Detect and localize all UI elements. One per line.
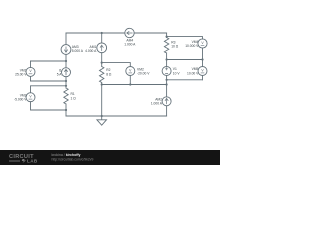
labels [14, 38, 199, 105]
voltmeter VM2 (center) [126, 67, 135, 76]
voltmeter VM5 [198, 67, 207, 76]
wire VM5 bottom L [167, 76, 203, 80]
svg-text:10 Ω: 10 Ω [171, 45, 179, 49]
svg-text:5 A: 5 A [57, 73, 63, 77]
svg-text:-20.00 V: -20.00 V [137, 72, 150, 76]
wire AM2 bottom stub [166, 106, 168, 116]
wire VM1 bottom stub [30, 76, 32, 81]
voltmeter VM4 [198, 39, 207, 48]
current source I1 top stub [65, 61, 67, 68]
wire node y59.5 [167, 59, 203, 61]
wire VM4 top L [167, 37, 203, 39]
ammeter AM4 [125, 28, 134, 37]
resistor R2 [100, 63, 104, 85]
wire VM3 bottom L [31, 102, 67, 110]
junction dots [65, 32, 204, 117]
wire y81 VM1 to junction [31, 80, 67, 82]
resistor R3 [164, 38, 168, 60]
wire I1 bottom stub [65, 77, 67, 81]
svg-text:4.000 A: 4.000 A [85, 49, 97, 53]
svg-text:krokina / kirchoffy: krokina / kirchoffy [52, 153, 81, 157]
svg-text:25.00 V: 25.00 V [15, 72, 27, 76]
ammeter AM2 [162, 97, 171, 106]
wire center column AM1 top stub [101, 33, 103, 43]
svg-text:8 Ω: 8 Ω [106, 72, 112, 76]
CircuitLab logo [9, 154, 38, 164]
wire node row y61 [31, 60, 67, 62]
wire bottom horizontal [66, 115, 167, 117]
wire top horizontal right of AM4 [134, 32, 166, 34]
voltage source V1 [162, 67, 171, 76]
footer credit line [52, 153, 94, 162]
wire VM3 top L [31, 86, 67, 93]
wire mid horizontal y84.5 [102, 84, 167, 86]
wire VM2 bottom stub [129, 76, 131, 85]
wire VM4 bottom stub [202, 48, 204, 59]
meter glyphs [29, 41, 205, 99]
svg-text:-5.000 V: -5.000 V [14, 98, 27, 102]
svg-text:1.000 A: 1.000 A [151, 102, 163, 106]
wire AM3 bottom to node row [65, 54, 67, 61]
current source I1 [62, 68, 71, 77]
wire VM1 top stub [30, 61, 32, 67]
wire left column top (top wire to AM3) [65, 33, 67, 45]
ammeter AM3 [61, 45, 71, 55]
wire R3 column top corner [166, 33, 168, 38]
svg-text:1.000 A: 1.000 A [124, 42, 136, 46]
wire top horizontal left of AM4 [66, 32, 125, 34]
voltmeter VM3 [26, 93, 35, 102]
wire V1 bottom to AM2 [166, 76, 168, 97]
wire AM1 bottom stub [101, 53, 103, 63]
svg-text:10.000 V: 10.000 V [185, 44, 199, 48]
svg-text:10 V: 10 V [173, 71, 181, 75]
ground [97, 116, 107, 125]
wire V1 top stub [166, 60, 168, 67]
svg-text:5.000 A: 5.000 A [72, 49, 84, 53]
footer bar [0, 150, 220, 165]
svg-text:1 Ω: 1 Ω [71, 96, 77, 100]
wire VM5 top stub [202, 60, 204, 67]
svg-text:LAB: LAB [27, 159, 38, 164]
wire ground column [101, 85, 103, 117]
resistor R1 [64, 81, 68, 116]
svg-text:http://circuitlab.com/c/9k2v9: http://circuitlab.com/c/9k2v9 [52, 158, 94, 162]
ammeter AM1 [97, 43, 107, 53]
voltmeter VM1 [26, 67, 35, 76]
svg-text:10.00 V: 10.00 V [187, 71, 199, 75]
wire node y62.6 to center voltmeter [102, 63, 131, 67]
